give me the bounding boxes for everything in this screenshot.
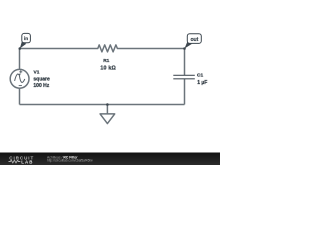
svg-text:R1: R1 [103, 58, 109, 64]
svg-text:LAB: LAB [21, 159, 33, 164]
svg-text:100 Hz: 100 Hz [33, 83, 49, 89]
svg-text:C1: C1 [197, 73, 203, 79]
svg-text:out: out [190, 37, 198, 43]
svg-text:in: in [24, 36, 28, 42]
svg-text:1 µF: 1 µF [197, 80, 207, 86]
svg-text:http://circuitlab.com/c6af5af4: http://circuitlab.com/c6af5af45fw [47, 159, 93, 163]
svg-text:10 kΩ: 10 kΩ [100, 65, 116, 71]
svg-text:V1: V1 [34, 70, 40, 76]
svg-text:square: square [33, 76, 50, 82]
